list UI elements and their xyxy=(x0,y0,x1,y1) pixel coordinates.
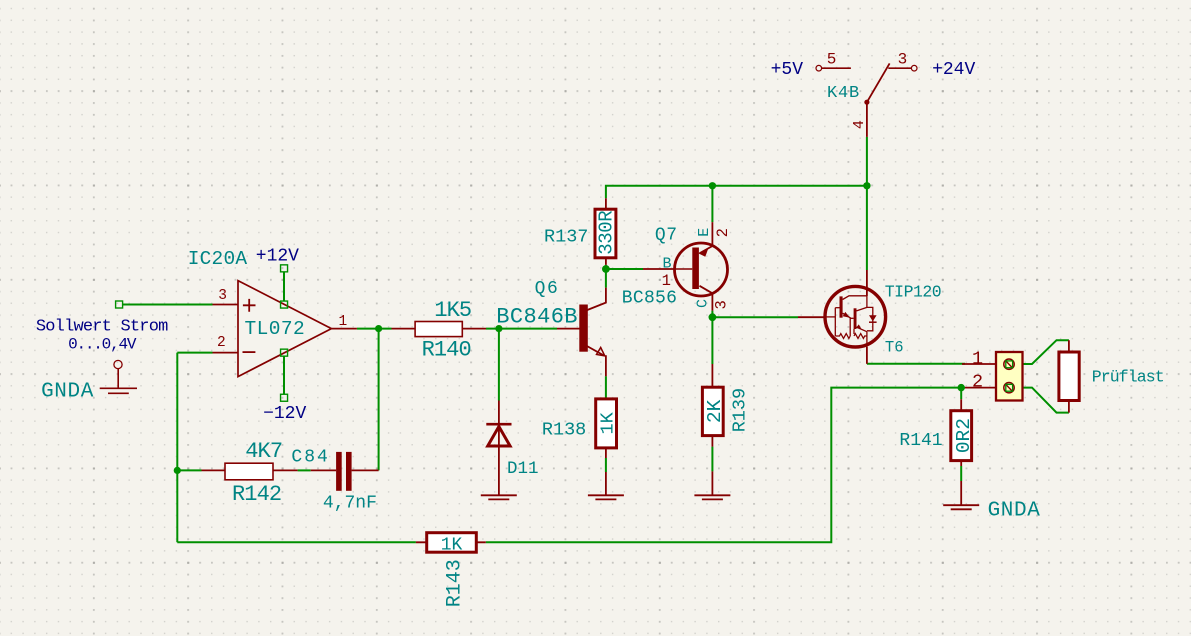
node V+ pin square xyxy=(281,301,288,308)
svg-text:+24V: +24V xyxy=(932,60,975,80)
wire pin3 stub xyxy=(213,304,239,306)
resistor R140 xyxy=(415,322,462,337)
svg-text:+5V: +5V xyxy=(771,60,804,80)
svg-text:B: B xyxy=(662,256,671,273)
svg-text:1K: 1K xyxy=(598,411,619,434)
svg-text:4,7nF: 4,7nF xyxy=(323,494,377,514)
svg-text:E: E xyxy=(696,228,713,237)
svg-text:1: 1 xyxy=(662,272,671,290)
wire top rail to R137 xyxy=(606,186,867,198)
wire Q6 collector pin xyxy=(586,288,606,311)
svg-text:−12V: −12V xyxy=(263,404,306,424)
wire pin2 stub xyxy=(213,352,239,354)
wire K4B pin4 down to TIP120 xyxy=(866,137,868,270)
wire opamp V+ pin xyxy=(283,272,285,302)
wire K4B switch arm xyxy=(867,63,890,102)
wire junction to R141 xyxy=(960,388,962,400)
power symbol GNDA left xyxy=(100,360,137,393)
node V+ top square xyxy=(281,265,288,272)
transistor Q7 BC856 xyxy=(675,243,728,296)
op-amp U IC20A TL072 body xyxy=(238,281,331,377)
wire R138 pins xyxy=(605,448,607,495)
svg-text:+12V: +12V xyxy=(256,246,299,266)
node output junction xyxy=(375,325,382,332)
svg-text:C: C xyxy=(694,299,711,308)
node D11 junction xyxy=(495,325,502,332)
wire D11 pins xyxy=(498,401,500,496)
wire TIP120 base pin xyxy=(798,316,825,318)
wire R141 bottom gap xyxy=(960,466,962,481)
relay switch K4B xyxy=(816,65,822,71)
svg-text:0R2: 0R2 xyxy=(953,418,975,453)
svg-text:2: 2 xyxy=(217,335,226,351)
wire C84 pins xyxy=(311,469,379,471)
wire R143 pins xyxy=(416,541,486,543)
svg-text:Q7: Q7 xyxy=(655,226,678,246)
wire TIP120 collector pin xyxy=(866,270,868,296)
wire R137 bottom node xyxy=(606,265,643,288)
svg-text:3: 3 xyxy=(713,300,731,309)
svg-text:IC20A: IC20A xyxy=(188,248,248,270)
svg-text:C84: C84 xyxy=(291,448,329,468)
wire R138 bottom gap xyxy=(605,458,607,472)
resistor R138 xyxy=(596,399,617,448)
capacitor C84 xyxy=(336,452,342,491)
wire R143 to right riser xyxy=(486,388,965,543)
resistor R143 xyxy=(427,533,477,553)
wire junction to R142 xyxy=(177,469,201,471)
wire opamp V- pin xyxy=(283,356,285,395)
node input wire end square xyxy=(116,301,123,308)
wire connector pin2 to load bottom xyxy=(1014,388,1069,413)
svg-text:2: 2 xyxy=(972,372,983,393)
wire R140 to Q6 base xyxy=(486,328,557,330)
svg-text:GNDA: GNDA xyxy=(41,380,94,403)
resistor R137 xyxy=(595,209,616,258)
wire feedback left vertical xyxy=(176,353,178,543)
node feedback junction xyxy=(174,467,181,474)
svg-text:330R: 330R xyxy=(596,211,618,255)
resistor R139 xyxy=(702,387,723,435)
svg-text:GNDA: GNDA xyxy=(988,500,1041,523)
wire R139 pins xyxy=(711,364,713,495)
wire C84 up to output node xyxy=(378,329,380,471)
wire R141 pins xyxy=(960,399,962,505)
node R137 bottom junction xyxy=(602,265,610,273)
svg-text:1: 1 xyxy=(972,349,983,370)
wire connector pin1 to load top xyxy=(1014,340,1069,364)
svg-text:R138: R138 xyxy=(542,420,586,441)
svg-text:R137: R137 xyxy=(544,226,588,247)
wire R137 pins xyxy=(605,198,607,265)
svg-text:1K5: 1K5 xyxy=(434,298,471,323)
transistor Q6 BC846B xyxy=(579,305,588,352)
wire R139 bottom gap xyxy=(711,447,713,472)
svg-text:4: 4 xyxy=(851,120,868,129)
node rail junction Q7 xyxy=(709,182,716,189)
ground GNDA right xyxy=(943,505,979,509)
wire Q6 emitter pin xyxy=(586,346,606,377)
svg-text:BC856: BC856 xyxy=(622,288,678,308)
wire Q6 base pin xyxy=(557,328,580,330)
resistor R142 xyxy=(225,463,273,480)
node V- bottom square xyxy=(281,394,288,401)
node rail junction K4B xyxy=(863,182,870,189)
svg-text:5: 5 xyxy=(827,50,837,68)
wire R138 top gap xyxy=(605,376,607,399)
ground R138 xyxy=(588,495,624,499)
svg-text:R142: R142 xyxy=(232,482,281,507)
wire R142 pins xyxy=(202,469,298,471)
wire load resistor stubs xyxy=(1068,340,1070,412)
ground R139 xyxy=(694,495,730,499)
wire Q7 collector node xyxy=(712,311,798,364)
svg-text:K4B: K4B xyxy=(827,84,860,103)
ground D11 xyxy=(481,495,517,499)
svg-text:0...0,4V: 0...0,4V xyxy=(68,336,137,354)
svg-text:1K: 1K xyxy=(441,535,463,555)
wire down to D11 xyxy=(498,329,500,401)
svg-text:4K7: 4K7 xyxy=(245,439,282,464)
svg-text:2K: 2K xyxy=(704,399,726,423)
connector J Pruflast xyxy=(996,352,1023,401)
wire TIP120 emitter pin xyxy=(866,347,868,364)
svg-text:1: 1 xyxy=(338,314,347,330)
wire Q7 base pin xyxy=(643,268,675,270)
node Q7 collector junction xyxy=(709,313,717,321)
svg-text:Sollwert Strom: Sollwert Strom xyxy=(36,318,168,337)
wire Q7 emitter pin xyxy=(700,222,713,253)
svg-text:R143: R143 xyxy=(443,559,466,607)
wire pin1 stub xyxy=(331,328,357,330)
svg-text:R139: R139 xyxy=(730,388,751,432)
svg-text:3: 3 xyxy=(218,288,227,304)
svg-text:R141: R141 xyxy=(899,431,942,451)
svg-text:2: 2 xyxy=(714,228,732,237)
svg-text:D11: D11 xyxy=(507,459,539,479)
wire K4B pin4 xyxy=(866,102,868,137)
diode D11 xyxy=(486,424,511,446)
wire R140 pins xyxy=(392,328,487,330)
wire input to pin3 xyxy=(123,304,213,306)
svg-text:R140: R140 xyxy=(422,338,471,363)
node connector pin2 junction xyxy=(958,384,965,391)
svg-text:Prüflast: Prüflast xyxy=(1092,368,1164,387)
wire connector pin stubs xyxy=(962,364,996,388)
svg-text:Q6: Q6 xyxy=(535,279,560,299)
wire R142 to C84 xyxy=(298,469,311,471)
svg-text:BC846B: BC846B xyxy=(496,305,578,330)
resistor Pruflast load xyxy=(1059,352,1079,401)
resistor R141 xyxy=(951,411,972,461)
wire Q7 emitter column xyxy=(711,186,713,222)
wire Q7 collector pin xyxy=(700,286,713,311)
wire bottom run to R143 xyxy=(177,541,416,543)
node V- pin square xyxy=(281,349,288,356)
svg-text:T6: T6 xyxy=(885,339,904,357)
wire opamp output xyxy=(357,328,392,330)
wire K4B pin5 xyxy=(822,67,851,69)
svg-text:3: 3 xyxy=(898,50,908,68)
wire pin2 left xyxy=(177,352,212,354)
wire TIP120 emitter to connector pin1 xyxy=(867,363,965,365)
svg-text:TIP120: TIP120 xyxy=(885,282,941,301)
svg-text:TL072: TL072 xyxy=(245,318,306,340)
wire K4B pin3 xyxy=(888,67,911,69)
